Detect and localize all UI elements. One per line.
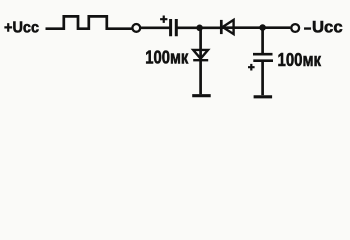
- svg-text:Ucc: Ucc: [312, 19, 343, 37]
- svg-text:+Ucc: +Ucc: [4, 19, 39, 36]
- svg-text:100мк: 100мк: [145, 48, 189, 68]
- svg-text:100мк: 100мк: [278, 49, 322, 70]
- svg-text:−: −: [304, 20, 312, 38]
